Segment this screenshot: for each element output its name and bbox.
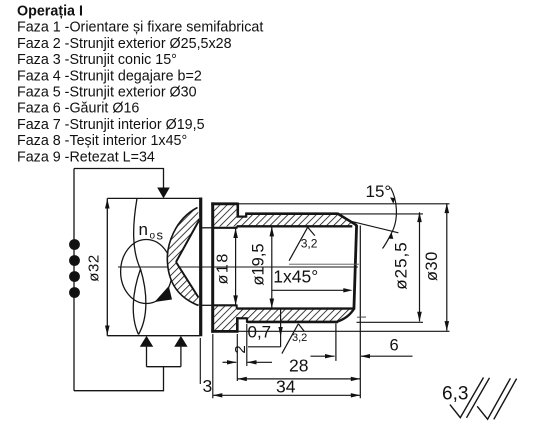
dimension 2 (groove width) [223, 361, 237, 363]
dimension 0,7 (groove depth) [280, 309, 282, 347]
bore lines across cut gap [201, 227, 213, 229]
operation text block [17, 4, 263, 166]
bar end cone crescent (hatched) [167, 208, 199, 306]
body top edge [245, 212, 338, 215]
svg-text:Faza 8 -Teșit interior 1x45°: Faza 8 -Teșit interior 1x45° [17, 133, 187, 149]
bore step bottom [236, 305, 238, 309]
dimension Ø32 [106, 198, 108, 335]
leader from Faza 9 to cutoff plane [74, 169, 164, 190]
bore top 19.5 [237, 225, 353, 227]
clamp arrow left [146, 347, 148, 367]
svg-text:o: o [150, 231, 156, 242]
bar stock top line [107, 197, 200, 199]
bore bottom 18 [213, 304, 237, 306]
svg-text:34: 34 [276, 377, 296, 397]
dot 1 [69, 239, 80, 250]
svg-text:3,2: 3,2 [292, 332, 307, 344]
break (wavy) line of bar [134, 198, 141, 269]
taper bottom [337, 309, 354, 322]
extension line groove right [246, 324, 248, 366]
faint reference line above axis [289, 263, 359, 265]
extension line groove left [236, 334, 238, 381]
bore bottom 19.5 [237, 307, 353, 309]
groove floor top [237, 216, 247, 218]
svg-text:Faza 2 -Strunjit exterior Ø25,: Faza 2 -Strunjit exterior Ø25,5x28 [17, 36, 232, 52]
groove floor bottom [237, 317, 248, 319]
svg-text:ø32: ø32 [86, 254, 103, 281]
groove wall top [245, 214, 247, 218]
dimension 28 [311, 355, 335, 357]
check mark 1 [450, 378, 484, 418]
extension line body top [339, 213, 424, 215]
svg-text:15°: 15° [366, 182, 392, 201]
svg-text:ø25,5: ø25,5 [392, 241, 411, 289]
part section hatching: flange bottom block [214, 306, 354, 331]
dot 2 [69, 255, 80, 266]
dimension Ø25,5 [419, 212, 421, 321]
dimension 6 (taper length) [361, 355, 413, 357]
extension line cut face [199, 338, 201, 384]
roughness 3,2 (outer) [282, 324, 298, 354]
arc arrowhead bottom [388, 233, 393, 239]
svg-text:6: 6 [390, 337, 399, 355]
flange right face top [237, 203, 240, 217]
taper construction line 15deg [347, 220, 398, 233]
rotation arrowhead [155, 286, 173, 302]
extension line right face long [359, 226, 361, 399]
fixture line with dots (left) [73, 169, 75, 391]
arc arrowhead top [390, 197, 395, 204]
groove wall bottom [246, 318, 248, 323]
flange bottom edge [211, 330, 238, 333]
check mark 2 [477, 378, 510, 419]
svg-text:3,2: 3,2 [301, 237, 318, 251]
overall bottom dimension line [213, 394, 360, 396]
cone V notch bottom edge [176, 262, 199, 298]
svg-text:Faza 4 -Strunjit degajare b=2: Faza 4 -Strunjit degajare b=2 [17, 68, 202, 84]
svg-text:ø19,5: ø19,5 [250, 243, 268, 285]
flange right face bottom [236, 317, 239, 332]
svg-text:28: 28 [289, 356, 308, 376]
angle arc [383, 188, 397, 249]
break lens left arc [133, 269, 140, 335]
svg-text:Faza 6 -Găurit Ø16: Faza 6 -Găurit Ø16 [17, 101, 139, 117]
svg-text:ø18: ø18 [215, 252, 232, 284]
bar stock bottom line [107, 335, 200, 337]
bore step top [236, 226, 238, 228]
cutoff tool arrow [157, 188, 170, 199]
svg-text:Faza 7 -Strunjit interior Ø19,: Faza 7 -Strunjit interior Ø19,5 [17, 117, 205, 133]
wall bottom edge [247, 321, 338, 324]
roughness 3,2 (bore) [289, 227, 308, 261]
part outline: left face (thick) [211, 202, 214, 332]
part section hatching: flange top block [214, 205, 357, 227]
centerline (part axis) [118, 266, 358, 268]
svg-text:3: 3 [203, 376, 213, 396]
svg-text:Faza 5 -Strunjit exterior Ø30: Faza 5 -Strunjit exterior Ø30 [17, 85, 197, 101]
extension line part left [212, 334, 214, 398]
dimension 34 [237, 378, 360, 380]
clamp connector [147, 366, 181, 368]
clamp arrow right [180, 347, 182, 367]
bar cut face (thick) [199, 198, 202, 337]
short reference line right of face [357, 316, 366, 318]
flange top edge [211, 202, 238, 205]
svg-text:Faza 9 -Retezat L=34: Faza 9 -Retezat L=34 [17, 149, 155, 165]
svg-text:n: n [139, 220, 148, 239]
dimension Ø30 [446, 203, 448, 330]
svg-text:ø30: ø30 [423, 251, 441, 281]
svg-text:s: s [157, 228, 164, 243]
cone V notch top edge [176, 220, 200, 263]
dimension Ø19,5 [271, 227, 273, 309]
svg-text:Faza 3 -Strunjit conic 15°: Faza 3 -Strunjit conic 15° [17, 52, 177, 68]
dimension Ø18 [235, 228, 237, 305]
extension line body bottom [357, 321, 424, 323]
svg-text:Faza 1 -Orientare și fixare se: Faza 1 -Orientare și fixare semifabricat [17, 20, 263, 36]
extension line taper start [335, 324, 337, 361]
break lens right arc [139, 269, 146, 335]
crescent outer arc [167, 208, 198, 306]
svg-text:2: 2 [232, 345, 249, 353]
svg-text:1x45°: 1x45° [273, 267, 318, 287]
dot 4 [69, 287, 80, 298]
extension line flange top [239, 203, 450, 205]
right face (thick) [354, 225, 357, 310]
extension line flange bottom [238, 330, 450, 332]
bore top 18 [213, 227, 237, 229]
svg-text:Operația I: Operația I [17, 4, 83, 20]
taper 15 top [337, 213, 356, 225]
svg-text:0,7: 0,7 [248, 323, 272, 342]
dot 3 [69, 271, 80, 282]
rotation symbol ns circle [121, 240, 172, 304]
clamp bracket bottom [74, 367, 164, 391]
svg-text:6,3: 6,3 [442, 384, 468, 405]
